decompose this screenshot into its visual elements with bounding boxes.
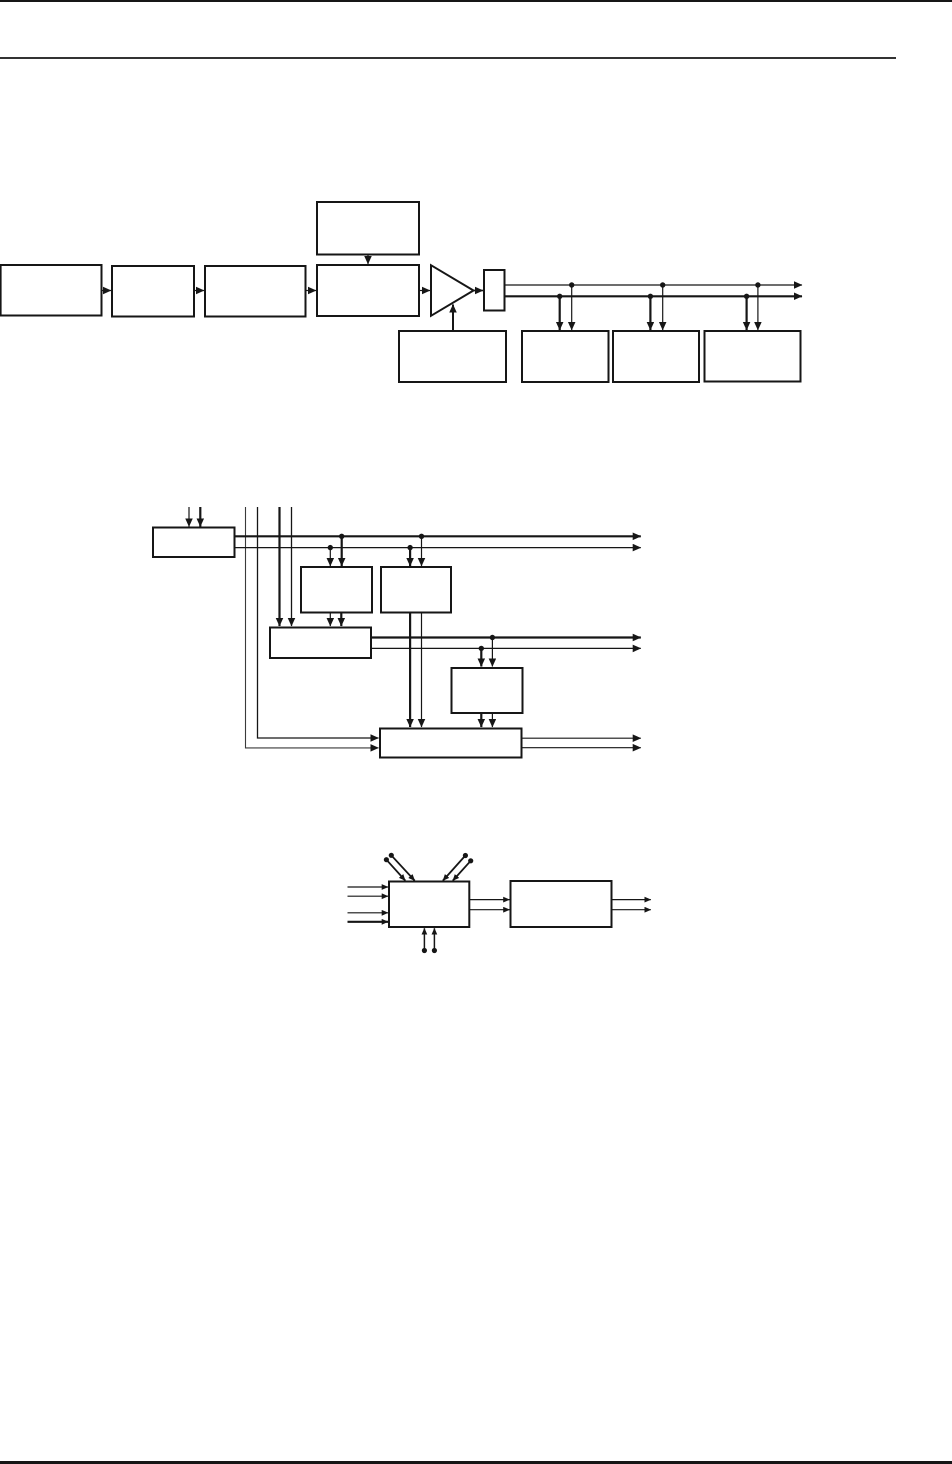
wire B4 to U1 — [419, 290, 430, 292]
bus HR1 (thick from R) — [235, 535, 641, 537]
diagonal wire R2 into P top — [453, 861, 471, 881]
wire H2 down to D3 (thick) — [745, 296, 747, 330]
bus BB out lower — [522, 747, 641, 749]
diagonal wire L1 into P top — [386, 860, 405, 881]
wire HR2 down into B (thick) — [409, 548, 411, 566]
wire HM1 down into C (thin) — [491, 638, 493, 667]
wire V2 (inner left, down then right into BB) — [258, 507, 379, 738]
block C — [452, 668, 523, 713]
terminal dot L2 — [389, 853, 394, 858]
junction dot H1-D2 — [660, 282, 665, 287]
bus H1 (upper thin) — [505, 284, 803, 286]
block B — [381, 567, 451, 613]
junction dot HR1-B — [419, 534, 424, 539]
terminal dot L1 — [384, 857, 389, 862]
junction dot H2-D3 — [744, 294, 749, 299]
junction dot HR2-B — [407, 545, 412, 550]
wire G up into U1 — [452, 305, 454, 332]
wire HR2 down into A (thin) — [329, 548, 331, 566]
terminal dot R2 — [468, 858, 473, 863]
wire H2 down to D2 (thick) — [649, 296, 651, 330]
diagonal wire R1 into P top — [443, 856, 466, 881]
wire up into P bottom 2 — [433, 928, 435, 950]
block D1 — [522, 331, 609, 382]
block B2 — [112, 266, 194, 317]
junction dot H2-D1 — [557, 294, 562, 299]
junction dot HM2-C — [479, 646, 484, 651]
wire A down into M (thin) — [329, 613, 331, 627]
junction dot H1-D3 — [755, 282, 760, 287]
terminal dot P bottom 1 — [422, 948, 427, 953]
wire B down into BB (thick) — [409, 613, 411, 728]
wire B1 to B2 — [102, 290, 112, 292]
wire V1 (outer left, down then right into BB) — [246, 507, 379, 748]
junction dot HR1-A — [339, 534, 344, 539]
wire U1 to block S — [472, 290, 483, 292]
wire input thin into R — [188, 507, 190, 527]
terminal dot R1 — [463, 853, 468, 858]
block D3 — [705, 331, 801, 382]
top page border bar — [0, 0, 952, 2]
wire input 3 into P — [348, 912, 389, 914]
bus HM2 (thin from M) — [371, 647, 641, 649]
block S (narrow coupler) — [484, 270, 505, 311]
junction dot HM1-C — [490, 635, 495, 640]
wire HR1 down into A (thick) — [341, 536, 343, 566]
wire T down to B4 — [367, 255, 369, 265]
wire HR1 down into B (thin) — [421, 536, 423, 566]
block R (top-left register) — [153, 528, 235, 558]
wire H1 down to D2 (thin) — [662, 285, 664, 330]
bus HM1 (thick from M) — [371, 636, 641, 638]
junction dot H2-D2 — [648, 294, 653, 299]
block B4 — [317, 265, 419, 316]
bus H2 (lower thick) — [505, 295, 803, 297]
junction dot HR2-A — [328, 545, 333, 550]
wire C down into BB (thin) — [491, 713, 493, 727]
wire P to Q upper — [469, 899, 509, 901]
wire H2 down to D1 (thick) — [559, 296, 561, 330]
wire B2 to B3 — [194, 290, 204, 292]
wire P to Q lower — [469, 909, 509, 911]
block B1 (leftmost, clipped by page edge) — [1, 265, 102, 316]
wire up into P bottom 1 — [423, 928, 425, 950]
wire input 1 into P — [348, 886, 389, 888]
block A — [301, 567, 372, 613]
wire H1 down to D1 (thin) — [571, 285, 573, 330]
junction dot H1-D1 — [569, 282, 574, 287]
wire B3 to B4 — [306, 290, 317, 292]
bottom page border bar — [0, 1461, 952, 1464]
block M (wide middle block) — [270, 628, 371, 659]
wire Q out upper — [612, 899, 651, 901]
block Q — [511, 881, 612, 927]
wire input 2 into P — [348, 895, 389, 897]
wire Q out lower — [612, 909, 651, 911]
block D2 — [613, 331, 699, 382]
amplifier triangle U1 — [431, 265, 474, 316]
wire input 4 into P (thick) — [348, 921, 389, 923]
block BB (bottom wide block) — [380, 729, 522, 758]
bus HR2 (thin from R) — [235, 547, 641, 549]
wire H1 down to D3 (thin) — [757, 285, 759, 330]
block T (top feeder block) — [317, 202, 419, 255]
bus BB out upper — [522, 737, 641, 739]
header rule — [0, 57, 896, 59]
block B3 — [205, 266, 306, 317]
wire B down into BB (thin) — [421, 613, 423, 728]
wire HM2 down into C (thick) — [480, 648, 482, 666]
terminal dot P bottom 2 — [432, 948, 437, 953]
wire V3 thick down into M — [278, 507, 280, 626]
wire V4 thin down into M — [291, 507, 293, 626]
wire input thick into R — [199, 507, 201, 527]
wire C down into BB (thick) — [480, 713, 482, 727]
block G (feedback block under amplifier) — [399, 331, 506, 382]
diagonal wire L2 into P top — [391, 855, 414, 880]
block P — [389, 882, 469, 928]
wire A down into M (thick) — [340, 613, 342, 627]
